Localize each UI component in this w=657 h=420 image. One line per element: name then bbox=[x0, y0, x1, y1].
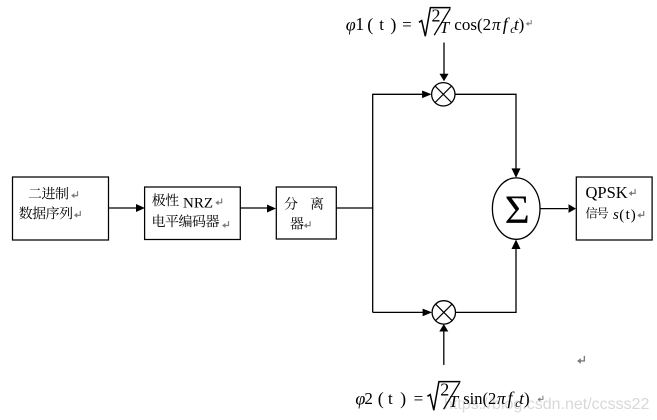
svg-text:2: 2 bbox=[364, 389, 373, 408]
return mark B4 line1 bbox=[629, 189, 635, 196]
svg-text:(: ( bbox=[367, 15, 373, 36]
return mark B1 line2 bbox=[74, 211, 80, 218]
box B1: binary data sequence bbox=[13, 177, 109, 240]
wire: M2 to summer bbox=[456, 247, 517, 312]
svg-text:φ: φ bbox=[346, 15, 356, 35]
branch vertical wire bbox=[372, 94, 374, 313]
svg-text:NRZ: NRZ bbox=[183, 196, 213, 212]
wire: B2 to B3 bbox=[240, 207, 268, 209]
svg-text:): ) bbox=[519, 15, 525, 34]
formula phi2(t)=sqrt(2/T)sin(2*pi*fc*t) bbox=[355, 380, 529, 412]
box B3: separator bbox=[276, 187, 336, 239]
svg-text:π: π bbox=[497, 389, 506, 408]
return mark B2 line1 bbox=[215, 198, 221, 205]
wire: branch to M2 bbox=[373, 311, 424, 313]
svg-text:1: 1 bbox=[355, 14, 364, 34]
svg-text:π: π bbox=[492, 15, 501, 34]
return mark B2 line2 bbox=[222, 221, 228, 228]
return mark after formula 1 bbox=[526, 20, 531, 26]
return mark after formula 2 bbox=[537, 396, 542, 402]
multiplier M2 bbox=[432, 301, 455, 324]
svg-text:T: T bbox=[440, 18, 451, 37]
return mark B3 bbox=[304, 221, 310, 228]
svg-text:sin(2: sin(2 bbox=[463, 389, 496, 408]
svg-text:): ) bbox=[631, 207, 636, 223]
svg-text:s: s bbox=[613, 207, 619, 223]
svg-text:t: t bbox=[379, 15, 384, 34]
formula phi1(t)=sqrt(2/T)cos(2*pi*fc*t) bbox=[346, 6, 525, 38]
svg-text:QPSK: QPSK bbox=[586, 183, 628, 202]
wire: B1 to B2 bbox=[109, 207, 138, 209]
stray return mark bbox=[577, 356, 584, 364]
wire: summer to B4 bbox=[540, 208, 568, 210]
svg-text:): ) bbox=[524, 389, 530, 408]
wire: M1 to summer bbox=[455, 94, 516, 170]
svg-text:): ) bbox=[390, 15, 396, 36]
svg-text:T: T bbox=[449, 392, 460, 411]
wire: B3 to branch node bbox=[336, 207, 373, 209]
box B2: polar NRZ level encoder bbox=[145, 187, 241, 240]
summer (sigma) bbox=[492, 178, 540, 239]
svg-text:=: = bbox=[402, 15, 412, 34]
svg-text:cos(2: cos(2 bbox=[454, 15, 491, 34]
box B4: QPSK signal s(t) bbox=[576, 177, 652, 240]
return mark B4 line2 bbox=[637, 211, 643, 218]
multiplier M1 bbox=[432, 83, 455, 106]
svg-text:(: ( bbox=[378, 389, 384, 410]
wire: phi1 into M1 bbox=[443, 43, 445, 75]
wire: phi2 into M2 bbox=[443, 332, 445, 365]
svg-text:): ) bbox=[400, 389, 406, 410]
svg-text:(: ( bbox=[619, 207, 624, 223]
svg-text:Σ: Σ bbox=[505, 188, 530, 232]
svg-text:=: = bbox=[414, 389, 424, 408]
svg-text:t: t bbox=[388, 389, 393, 408]
wire: branch to M1 bbox=[373, 93, 424, 95]
return mark B1 line1 bbox=[71, 191, 77, 198]
